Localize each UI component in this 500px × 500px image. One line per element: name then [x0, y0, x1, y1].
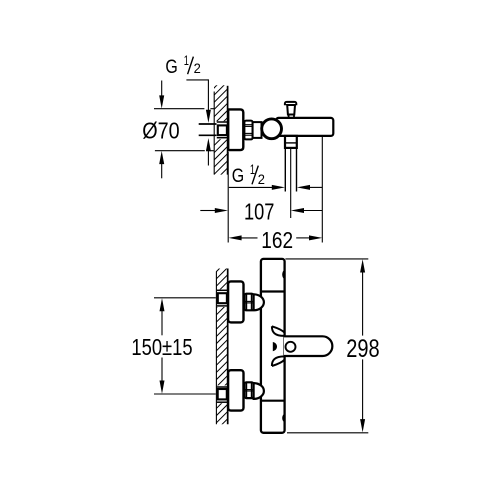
svg-text:162: 162	[261, 227, 293, 253]
edge screw bottom	[282, 413, 285, 423]
escutcheon top (bottom figure)	[228, 281, 243, 322]
handle leaf bottom	[272, 356, 284, 366]
wall back edge (top figure)	[213, 92, 215, 175]
faucet body (top figure)	[276, 118, 333, 136]
union nut (top figure)	[244, 121, 252, 140]
dimension line O70 (x=161.7)	[161, 81, 163, 97]
supply pipe through wall	[199, 123, 217, 125]
square wall fitting top (bottom figure)	[218, 293, 227, 303]
wall hatching (bottom figure)	[208, 250, 238, 438]
connector piece (top figure)	[253, 122, 262, 138]
label G 1/2 second	[232, 161, 265, 187]
svg-text:G: G	[165, 57, 177, 78]
svg-text:2: 2	[194, 60, 201, 76]
leader G1/2 top	[186, 79, 208, 81]
center extension line of outlet	[290, 148, 292, 218]
svg-text:2: 2	[258, 171, 265, 187]
dome cap top union	[254, 294, 264, 310]
dimension 107 (y=210.5)	[200, 210, 215, 212]
extension line left (x=228.2, wall face)	[227, 152, 229, 243]
svg-text:1: 1	[250, 161, 255, 177]
connection circle (top figure)	[262, 119, 282, 139]
wall face line (bottom figure)	[227, 269, 229, 425]
svg-text:Ø70: Ø70	[142, 118, 179, 144]
hose lines	[284, 148, 286, 191]
extension line 298 top (y=258.9)	[285, 258, 368, 260]
faucet body (bottom figure)	[261, 259, 285, 433]
escutcheon bottom (bottom figure)	[228, 370, 243, 410]
svg-text:G: G	[232, 166, 244, 187]
extension line O70 top (y=108.7)	[154, 108, 204, 110]
square wall fitting bottom (bottom figure)	[218, 389, 227, 399]
extension line 298 bottom (y=432.8)	[287, 432, 368, 434]
svg-text:1: 1	[184, 52, 189, 68]
wall hatching (top figure)	[206, 66, 236, 197]
spout outlet below body	[285, 136, 297, 148]
dimension line 150+-15 (x=162)	[160, 298, 165, 311]
dimension 162 (y=237.9)	[228, 235, 241, 240]
union nut top (bottom figure)	[245, 294, 254, 311]
diverter knob	[284, 101, 297, 118]
body divider bottom	[261, 400, 285, 402]
extension line O70 bottom (y=150.7)	[155, 150, 205, 152]
union nut bottom (bottom figure)	[245, 382, 254, 398]
handle leaf top	[272, 326, 284, 336]
extension line right (x=322.3, from body)	[321, 136, 323, 242]
svg-text:107: 107	[244, 199, 274, 225]
body divider top	[261, 290, 285, 292]
dimension line 298 (x=362.6)	[360, 259, 365, 272]
extension line 150 bottom (y=394.0)	[154, 393, 216, 395]
svg-text:298: 298	[346, 335, 379, 363]
G1/2 second dimension (y=187.4)	[229, 186, 272, 188]
aerator circle	[286, 342, 296, 352]
dome cap bottom union	[254, 383, 264, 399]
escutcheon (top figure)	[228, 109, 243, 150]
label G 1/2 top	[165, 52, 201, 78]
svg-text:150±15: 150±15	[131, 334, 192, 360]
square wall fitting (top figure)	[218, 125, 227, 135]
wall back edge (bottom figure)	[215, 272, 217, 425]
extension line 150 top (y=297.8)	[154, 297, 216, 299]
edge screw top	[282, 269, 285, 279]
spout (bottom figure)	[284, 336, 332, 356]
dimension line G1/2 top (x=208.4)	[207, 79, 209, 110]
wall face line (top figure)	[227, 86, 229, 175]
dark D marker	[273, 342, 277, 351]
